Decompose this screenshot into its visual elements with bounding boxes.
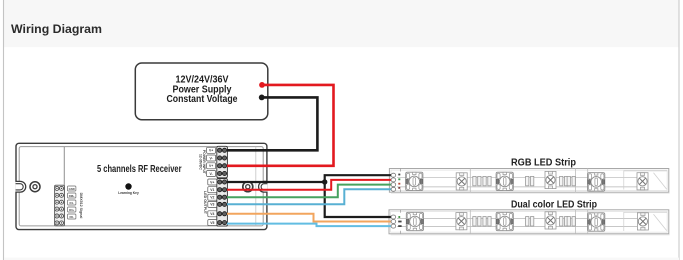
RGB strip resistor R2	[483, 176, 491, 185]
wire: G channel green	[227, 185, 392, 198]
RGB strip solder pads	[391, 173, 396, 191]
Dual strip pad marks	[398, 216, 400, 218]
Dual strip resistor R4	[560, 217, 568, 226]
svg-text:V4: V4	[210, 212, 214, 216]
RGB LED strip body	[389, 169, 669, 194]
svg-text:V2: V2	[210, 196, 214, 200]
left mounting screw circle	[30, 182, 40, 192]
PSU V- terminal dot (black)	[259, 95, 265, 101]
receiver seam after DMX block	[63, 147, 65, 226]
Dual strip round component 1	[456, 213, 467, 230]
svg-text:DM+: DM+	[69, 194, 75, 198]
Dual color LED strip body	[389, 210, 670, 235]
wire: V+ branch to RGB strip	[325, 175, 393, 182]
wire: W1 channel orange	[227, 214, 392, 222]
svg-text:Wiring Diagram: Wiring Diagram	[11, 22, 102, 36]
svg-text:POWER INPUT: POWER INPUT	[202, 150, 206, 175]
receiver inner outline	[19, 147, 263, 226]
footer band	[4, 258, 679, 260]
RGB strip LED module 2	[496, 172, 513, 190]
Dual strip LED module 2	[496, 212, 513, 230]
strip segment seams	[469, 169, 471, 193]
Dual strip LED module 1	[406, 212, 423, 230]
Dual strip resistor R3	[526, 217, 534, 226]
power input terminal block J2	[198, 146, 227, 178]
Dual strip resistor R5	[567, 217, 575, 226]
svg-text:V+: V+	[209, 164, 213, 168]
receiver U1 body	[15, 143, 267, 229]
svg-text:V3: V3	[210, 203, 214, 207]
strip segment seams	[469, 210, 471, 234]
svg-text:12-36VDC: 12-36VDC	[198, 154, 202, 170]
Dual strip resistor R2	[483, 217, 491, 226]
RGB strip resistor R4	[560, 176, 568, 185]
RGB strip resistor R5	[567, 176, 575, 185]
svg-text:DMX512 Signal: DMX512 Signal	[79, 193, 83, 219]
svg-text:RGB LED Strip: RGB LED Strip	[511, 157, 576, 168]
RGB strip round component 2	[545, 171, 556, 188]
power supply U-PSU box	[135, 63, 267, 120]
wire: B channel cyan	[227, 189, 392, 204]
svg-text:Dual color LED Strip: Dual color LED Strip	[511, 200, 597, 211]
wire: PSU V+ red to receiver power input	[227, 85, 334, 166]
wire: PSU V- black to receiver power input	[227, 97, 317, 150]
right mounting slot	[259, 181, 268, 192]
svg-text:V1: V1	[210, 188, 214, 192]
svg-text:V+: V+	[209, 149, 213, 153]
svg-text:Learning Key: Learning Key	[118, 191, 139, 195]
wire: V+ output black feed	[227, 181, 325, 183]
DMX terminal block J1	[55, 185, 83, 226]
svg-text:V5: V5	[210, 221, 214, 225]
RGB strip LED module 3	[588, 173, 605, 191]
strip drop shadow	[391, 192, 670, 194]
svg-text:D0-: D0-	[69, 215, 74, 219]
LED output terminal block J3	[203, 179, 227, 227]
PSU V+ terminal dot (red)	[259, 82, 265, 88]
RGB strip pad marks	[398, 174, 400, 176]
wire: V+ branch to dual color strip	[325, 182, 393, 217]
wire: W2 channel light blue	[227, 224, 392, 227]
Dual strip round component 2	[545, 212, 556, 229]
RGB strip round component 3	[637, 173, 648, 190]
strip bus traces	[397, 218, 648, 220]
svg-text:Constant Voltage: Constant Voltage	[167, 94, 238, 105]
DMX pin label boxes	[68, 186, 76, 219]
learning key button	[125, 183, 131, 189]
strip cut ticks	[400, 169, 402, 172]
strip drop shadow	[391, 234, 670, 236]
svg-text:V+: V+	[210, 180, 214, 184]
Dual strip round component 3	[637, 213, 648, 230]
RGB strip resistor R3	[526, 176, 534, 185]
left mounting slot	[15, 181, 26, 192]
wire: R channel red	[227, 180, 392, 190]
node: V+ junction	[322, 179, 327, 184]
right mounting screw circle	[243, 182, 253, 192]
RGB strip resistor R1	[473, 176, 481, 185]
Dual strip resistor R1	[473, 217, 481, 226]
svg-text:5 channels RF Receiver: 5 channels RF Receiver	[97, 164, 182, 175]
Dual strip LED module 3	[588, 213, 605, 231]
left page border	[3, 0, 5, 260]
svg-text:V-: V-	[209, 156, 212, 160]
strip cut ticks	[400, 210, 402, 213]
svg-text:D1-: D1-	[69, 201, 74, 205]
svg-text:LED OUTPUT: LED OUTPUT	[203, 191, 207, 215]
header band	[4, 0, 679, 47]
svg-text:GND: GND	[69, 187, 75, 191]
strip bus traces	[397, 176, 648, 178]
svg-text:V-: V-	[209, 172, 212, 176]
receiver seam right cap	[255, 147, 257, 226]
svg-text:D0+: D0+	[69, 208, 75, 212]
Dual strip solder pads	[391, 215, 396, 228]
RGB strip round component 1	[456, 173, 467, 190]
LED output pin label boxes	[208, 179, 217, 226]
right page border	[678, 0, 680, 260]
strip end cut	[624, 171, 667, 190]
power input pin label boxes	[207, 147, 216, 176]
strip end cut	[624, 212, 667, 231]
RGB strip LED module 1	[406, 172, 423, 190]
